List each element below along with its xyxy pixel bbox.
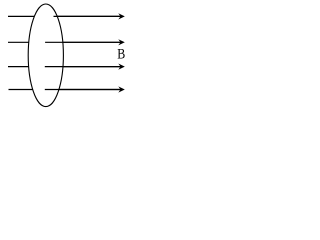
background [0, 0, 132, 111]
wire field line 2 (under layer) [8, 41, 123, 43]
arrow line 1 over loop [54, 13, 125, 19]
arrow line 3 over loop [45, 64, 125, 70]
wire field line 1 (under layer) [8, 15, 123, 17]
arrow line 2 over loop (B) [45, 39, 125, 45]
wire field line 3 (under layer) [8, 66, 123, 68]
arrow line 4 over loop [45, 86, 125, 92]
wire field line 4 (under layer) [9, 89, 124, 91]
loop (ellipse) [28, 4, 63, 107]
svg-text:B: B [117, 45, 125, 62]
